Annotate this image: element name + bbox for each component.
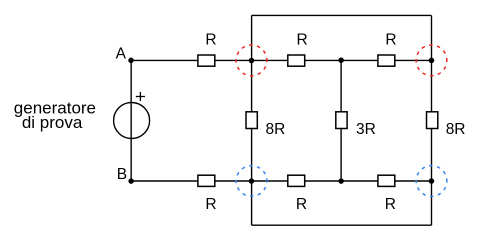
svg-text:R: R bbox=[297, 31, 308, 48]
resistor R (top 1) bbox=[198, 55, 215, 66]
svg-text:A: A bbox=[116, 46, 127, 63]
node marker blue dashed bottom-right bbox=[416, 166, 447, 197]
node marker red dashed top-left bbox=[236, 45, 267, 76]
node B junction dot bbox=[128, 178, 134, 184]
svg-text:B: B bbox=[117, 166, 127, 183]
wire: generator branch A to B bbox=[130, 60, 132, 181]
resistor R (bottom 3) bbox=[378, 175, 395, 186]
resistor 8R (right vertical) bbox=[427, 112, 438, 129]
wire: top bypass bbox=[252, 14, 432, 16]
resistor 8R (left vertical) bbox=[246, 112, 257, 129]
junction dot top-middle bbox=[338, 57, 344, 63]
junction dot bottom-left bbox=[249, 178, 255, 184]
resistor R (top 2) bbox=[288, 55, 305, 66]
svg-text:3R: 3R bbox=[356, 121, 376, 138]
wire: bottom bypass bbox=[252, 224, 432, 226]
svg-text:R: R bbox=[205, 196, 216, 213]
wire: middle vertical branch through 3R bbox=[340, 60, 342, 181]
wire: left vertical branch through 8R with bypass risers bbox=[251, 15, 253, 225]
svg-text:di prova: di prova bbox=[22, 113, 83, 132]
wire: top rail from node A to right junction bbox=[131, 59, 431, 61]
polarity plus sign bbox=[136, 92, 145, 101]
junction dot bottom-right bbox=[429, 178, 435, 184]
junction dot top-right bbox=[429, 58, 435, 64]
resistor 3R (middle vertical) bbox=[336, 112, 347, 129]
junction dot bottom-middle bbox=[338, 178, 344, 184]
label generatore di prova bbox=[14, 98, 96, 132]
node marker blue dashed bottom-left bbox=[236, 166, 267, 197]
junction dot top-left bbox=[249, 58, 255, 64]
wire: bottom rail from node B to right junction bbox=[131, 180, 431, 182]
node A junction dot bbox=[128, 58, 134, 64]
resistor R (bottom 2) bbox=[288, 175, 305, 186]
svg-text:R: R bbox=[385, 196, 396, 213]
node marker red dashed top-right bbox=[416, 45, 447, 76]
svg-text:R: R bbox=[205, 31, 216, 48]
resistor R (bottom 1) bbox=[198, 175, 215, 186]
svg-text:8R: 8R bbox=[266, 121, 286, 138]
resistor R (top 3) bbox=[378, 55, 395, 66]
svg-text:R: R bbox=[296, 196, 307, 213]
svg-text:R: R bbox=[385, 31, 396, 48]
voltage source (generatore di prova) bbox=[114, 103, 150, 139]
wire: right vertical branch through 8R with bypass risers bbox=[431, 15, 433, 225]
svg-text:8R: 8R bbox=[446, 121, 466, 138]
